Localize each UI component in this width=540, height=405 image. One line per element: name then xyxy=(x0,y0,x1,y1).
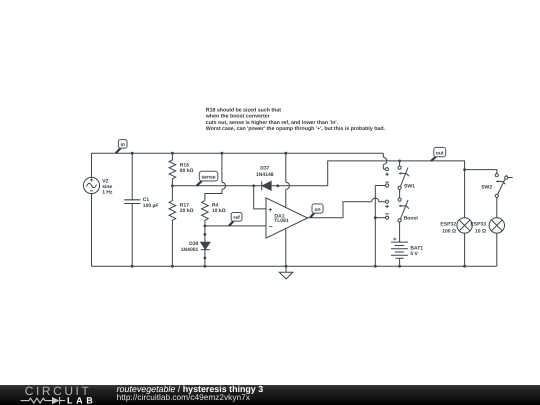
svg-text:SW2: SW2 xyxy=(481,184,492,190)
svg-text:80 kΩ: 80 kΩ xyxy=(180,168,194,174)
resistor R4 xyxy=(202,201,209,226)
wire sense horizontal xyxy=(172,185,327,187)
svg-text:10 Ω: 10 Ω xyxy=(475,228,486,234)
junction out wire / SW1 xyxy=(398,160,401,163)
wire Boost to battery xyxy=(399,222,401,242)
wire boost minus branch xyxy=(375,217,385,219)
resistor R17 xyxy=(169,186,176,266)
wire out net xyxy=(328,161,465,266)
svg-text:100 µF: 100 µF xyxy=(143,203,159,209)
svg-text:1N4001: 1N4001 xyxy=(181,247,199,253)
junction in rail / R16 xyxy=(171,152,174,155)
junction D39 top terminal xyxy=(204,233,207,236)
svg-text:on: on xyxy=(314,207,320,213)
svg-text:sense: sense xyxy=(201,175,215,181)
wire opamp V+ supply with hop xyxy=(286,153,290,207)
diode D3 symbol (points left) xyxy=(261,181,263,190)
svg-text:10 kΩ: 10 kΩ xyxy=(212,208,226,214)
diode D39 symbol xyxy=(201,242,210,249)
svg-text:when the boost converter: when the boost converter xyxy=(205,114,270,120)
flag out xyxy=(431,147,446,161)
svg-text:cuts out, sense is higher than: cuts out, sense is higher than ref, and … xyxy=(206,120,339,126)
switch Boost xyxy=(385,198,409,222)
flag in xyxy=(116,140,127,154)
logo wire glyph xyxy=(21,397,65,404)
junction out wire / ESP32-SW2 xyxy=(463,168,466,171)
switch SW2 xyxy=(495,174,513,198)
junction Boost minus / ground column xyxy=(374,216,377,219)
wire SW1 stem xyxy=(399,161,401,166)
op-amp OA1 triangle xyxy=(266,198,308,238)
wire bottom ground rail xyxy=(92,265,497,267)
wire R4 feed from in rail with hop over sense xyxy=(205,153,226,200)
svg-text:100 Ω: 100 Ω xyxy=(442,228,456,234)
wire SW2 to ESP33 xyxy=(496,197,498,266)
junction ground rail / op-amp V- xyxy=(285,265,288,268)
svg-text:ref: ref xyxy=(233,215,240,221)
junction in rail / R4 feed xyxy=(221,152,224,155)
capacitor C1 xyxy=(124,200,140,204)
junction ground rail / R17 xyxy=(171,265,174,268)
svg-text:in: in xyxy=(120,142,124,148)
wire SW1 to Boost xyxy=(399,189,401,198)
junction D3 anode / op-amp + branch xyxy=(252,184,255,187)
wire D39 column xyxy=(204,226,206,266)
svg-text:Worst case, can 'power' the op: Worst case, can 'power' the opamp throug… xyxy=(206,126,386,132)
ground symbol xyxy=(279,266,293,279)
svg-text:5 V: 5 V xyxy=(410,251,418,257)
junction in rail / C1 xyxy=(131,152,134,155)
junction ground rail / C1 xyxy=(131,265,134,268)
svg-text:Boost: Boost xyxy=(404,216,419,222)
wire left vertical to V2 xyxy=(91,153,93,266)
wire opamp V- supply xyxy=(285,229,287,267)
junction node sense (R16/R17) xyxy=(171,184,174,187)
svg-text:ESP32: ESP32 xyxy=(440,221,456,227)
svg-text:R18 should be sized such that: R18 should be sized such that xyxy=(206,108,282,114)
wire in rail to SW1 + control with hop xyxy=(383,153,387,169)
svg-text:SW1: SW1 xyxy=(404,184,415,190)
flag ref xyxy=(229,213,242,226)
svg-text:D37: D37 xyxy=(260,165,269,171)
labels xyxy=(102,162,492,257)
svg-text:1 Hz: 1 Hz xyxy=(102,190,113,196)
junction ground rail / BAT1 xyxy=(398,265,401,268)
svg-text:out: out xyxy=(436,150,444,156)
lamp ESP32 xyxy=(457,218,472,233)
wire opamp output xyxy=(308,198,386,218)
junction D39 bottom terminal xyxy=(204,257,207,260)
svg-text:ESP33: ESP33 xyxy=(470,221,486,227)
wire ground vertical right xyxy=(374,186,376,267)
wire out to SW2 xyxy=(465,170,497,174)
junction in rail / op-amp V+ xyxy=(284,152,287,155)
wire ref horizontal xyxy=(205,225,266,227)
junction ground rail / ESP32 xyxy=(463,265,466,268)
wire SW1 minus xyxy=(375,185,385,187)
svg-text:+: + xyxy=(268,207,272,214)
svg-text:−: − xyxy=(269,224,273,231)
resistor R16 xyxy=(169,153,176,186)
wire top rail (in net) xyxy=(92,152,384,154)
svg-text:http://circuitlab.com/c49emz2v: http://circuitlab.com/c49emz2vkyn7x xyxy=(117,392,251,402)
junction D3 cathode terminal xyxy=(276,184,279,187)
flag on xyxy=(310,204,323,218)
svg-text:+: + xyxy=(393,237,397,243)
battery BAT1 xyxy=(391,242,408,266)
wire C1 column xyxy=(131,153,133,266)
junction node ref (R4/D39) xyxy=(204,225,207,228)
lamp ESP33 xyxy=(489,218,504,233)
flag sense xyxy=(197,171,218,186)
svg-text:20 kΩ: 20 kΩ xyxy=(180,208,194,214)
junction ground rail / D39 xyxy=(204,265,207,268)
note text xyxy=(205,108,386,132)
switch SW1 xyxy=(385,166,409,189)
junction ground rail / switch control returns xyxy=(374,265,377,268)
source V2 xyxy=(83,177,99,193)
svg-text:LAB: LAB xyxy=(67,395,96,405)
svg-text:TL081: TL081 xyxy=(274,218,289,224)
svg-text:1N4148: 1N4148 xyxy=(256,172,274,178)
wire opamp + input branch xyxy=(254,186,266,209)
